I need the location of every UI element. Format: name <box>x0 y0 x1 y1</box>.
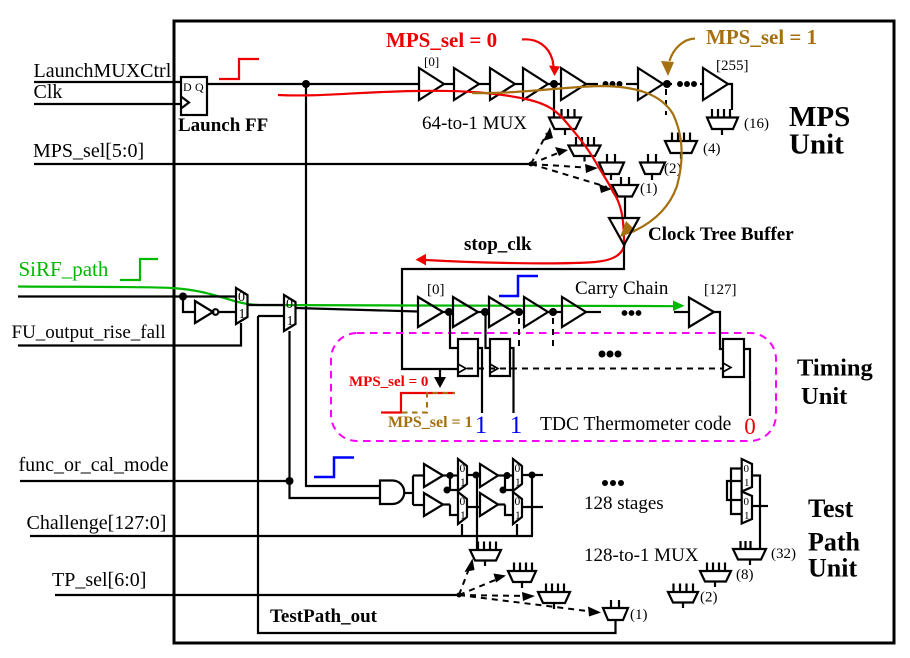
svg-text:[0]: [0] <box>424 54 439 69</box>
svg-text:MPS_sel = 1: MPS_sel = 1 <box>388 414 473 431</box>
svg-text:Timing: Timing <box>797 355 874 382</box>
svg-text:0: 0 <box>515 463 521 475</box>
svg-text:1: 1 <box>515 510 521 522</box>
svg-text:1: 1 <box>287 314 294 329</box>
svg-text:1: 1 <box>460 477 466 489</box>
svg-text:1: 1 <box>744 477 750 489</box>
svg-text:0: 0 <box>460 463 466 475</box>
svg-text:(4): (4) <box>703 141 721 157</box>
svg-text:TDC Thermometer code: TDC Thermometer code <box>540 414 731 435</box>
svg-text:Path: Path <box>808 528 861 557</box>
svg-text:Challenge[127:0]: Challenge[127:0] <box>27 512 167 534</box>
svg-text:func_or_cal_mode: func_or_cal_mode <box>19 454 169 476</box>
svg-text:0: 0 <box>744 496 750 508</box>
svg-text:(8): (8) <box>736 567 754 583</box>
svg-text:0: 0 <box>744 414 756 439</box>
svg-text:TP_sel[6:0]: TP_sel[6:0] <box>52 569 146 591</box>
svg-text:LaunchMUXCtrl: LaunchMUXCtrl <box>34 60 172 82</box>
svg-text:(32): (32) <box>771 546 796 562</box>
svg-text:Unit: Unit <box>801 383 848 410</box>
svg-text:0: 0 <box>238 290 245 305</box>
svg-text:Unit: Unit <box>808 554 857 583</box>
svg-text:FU_output_rise_fall: FU_output_rise_fall <box>12 322 166 343</box>
svg-text:Carry Chain: Carry Chain <box>575 278 669 299</box>
svg-text:D: D <box>183 80 192 94</box>
svg-text:[255]: [255] <box>716 58 749 74</box>
svg-text:MPS_sel = 1: MPS_sel = 1 <box>706 25 817 49</box>
svg-text:1: 1 <box>475 412 488 439</box>
svg-text:1: 1 <box>460 510 466 522</box>
svg-text:1: 1 <box>515 477 521 489</box>
svg-text:Unit: Unit <box>789 129 844 161</box>
svg-text:64-to-1 MUX: 64-to-1 MUX <box>422 113 527 134</box>
svg-text:0: 0 <box>515 496 521 508</box>
svg-text:Test: Test <box>808 494 854 523</box>
svg-text:TestPath_out: TestPath_out <box>270 606 378 627</box>
svg-text:[0]: [0] <box>427 282 445 298</box>
svg-text:1: 1 <box>744 510 750 522</box>
svg-text:MPS_sel = 0: MPS_sel = 0 <box>386 28 497 52</box>
svg-text:MPS_sel[5:0]: MPS_sel[5:0] <box>33 140 144 162</box>
svg-text:128-to-1 MUX: 128-to-1 MUX <box>584 545 699 566</box>
svg-text:Launch FF: Launch FF <box>178 115 268 136</box>
svg-text:Clock Tree Buffer: Clock Tree Buffer <box>648 224 794 245</box>
svg-text:0: 0 <box>460 496 466 508</box>
svg-text:(2): (2) <box>700 590 718 606</box>
svg-text:Q: Q <box>195 80 204 94</box>
svg-text:128 stages: 128 stages <box>584 493 664 514</box>
svg-text:(1): (1) <box>640 181 658 197</box>
svg-text:MPS_sel = 0: MPS_sel = 0 <box>349 374 428 390</box>
svg-text:[127]: [127] <box>704 282 737 298</box>
svg-text:1: 1 <box>510 412 523 439</box>
svg-text:Clk: Clk <box>34 81 63 103</box>
svg-text:0: 0 <box>286 297 293 312</box>
svg-text:0: 0 <box>744 463 750 475</box>
svg-text:(1): (1) <box>630 607 648 623</box>
svg-text:(16): (16) <box>744 116 769 132</box>
svg-text:SiRF_path: SiRF_path <box>19 257 109 281</box>
svg-text:stop_clk: stop_clk <box>464 234 532 255</box>
svg-text:1: 1 <box>239 307 246 322</box>
